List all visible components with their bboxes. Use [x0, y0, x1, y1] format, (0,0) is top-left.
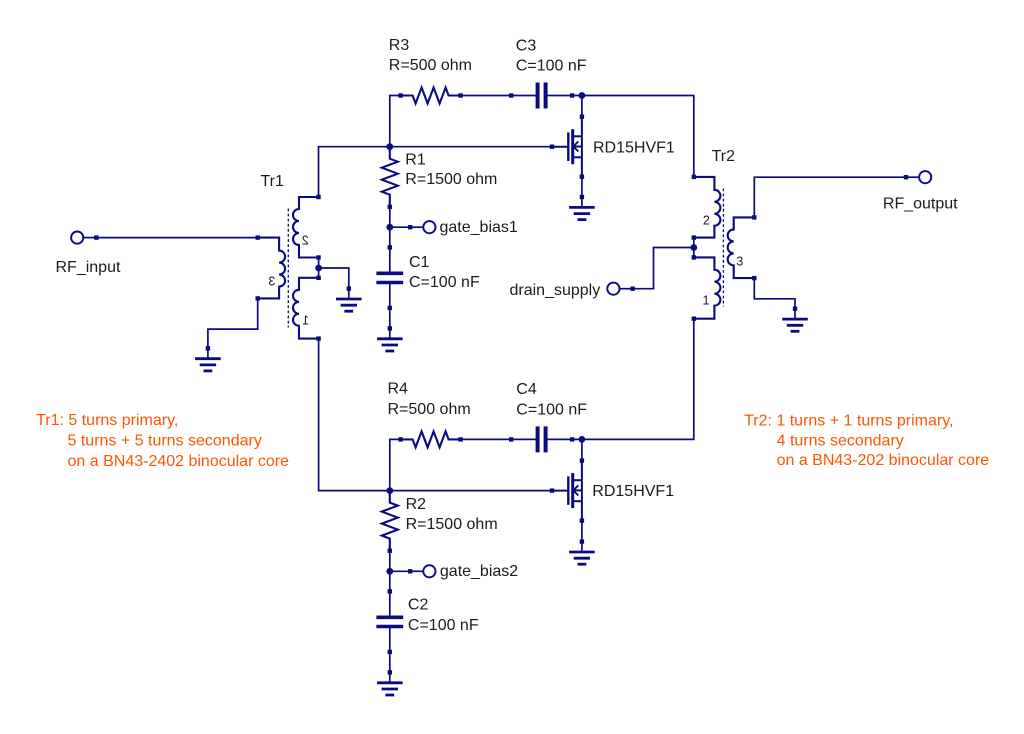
transformer Tr1 core line — [287, 209, 289, 328]
wire RF_input to Tr1 — [96, 237, 258, 239]
wire junction to C2 — [389, 571, 391, 591]
port drain_supply — [607, 283, 635, 295]
resistor R1 — [382, 147, 398, 207]
node R1 top junction — [386, 143, 393, 150]
transistor RD15HVF1 upper — [550, 115, 584, 179]
svg-text:gate_bias1: gate_bias1 — [440, 219, 518, 236]
capacitor C3 — [509, 83, 574, 109]
annotation Tr1 winding note — [36, 412, 289, 470]
wire R3 to C3 — [460, 95, 511, 97]
wire R4 to C4 — [460, 438, 511, 440]
resistor R2 — [382, 491, 398, 551]
ground Tr1 centre tap — [336, 286, 362, 311]
ground RF output side — [782, 307, 808, 332]
svg-text:R=500 ohm: R=500 ohm — [388, 401, 471, 418]
svg-text:R=1500 ohm: R=1500 ohm — [405, 171, 497, 188]
wire C4 to drain junction — [572, 438, 582, 440]
wire Tr1 winding1 bottom to lower gate row — [319, 339, 390, 491]
wire Tr1 winding2 top to gate row — [319, 147, 390, 197]
wire Tr2 winding1 bottom to lower drain — [582, 319, 694, 440]
svg-text:R=1500 ohm: R=1500 ohm — [406, 516, 498, 533]
wire gate row to transistor gate — [390, 146, 552, 148]
resistor R3 — [398, 88, 462, 104]
svg-text:C=100 nF: C=100 nF — [516, 57, 587, 74]
wire source lower to ground — [581, 521, 583, 542]
svg-text:3: 3 — [268, 274, 275, 288]
svg-text:5 turns + 5 turns secondary: 5 turns + 5 turns secondary — [68, 432, 262, 449]
wire junction to gate_bias2 port — [390, 570, 410, 572]
wire lower gate row to transistor gate — [390, 490, 552, 492]
svg-text:drain_supply: drain_supply — [510, 282, 601, 299]
transformer Tr1 winding 3 (primary) — [256, 235, 286, 300]
svg-text:C2: C2 — [408, 597, 429, 614]
svg-text:C=100 nF: C=100 nF — [408, 617, 479, 634]
port RF_output — [904, 171, 932, 183]
svg-text:3: 3 — [736, 254, 743, 268]
ground below C1 — [377, 326, 403, 351]
transformer Tr1 winding 2 (secondary upper) — [293, 195, 321, 260]
wire Tr1 secondary centre tap — [318, 258, 320, 278]
svg-text:R2: R2 — [406, 496, 427, 513]
node gate_bias1 junction — [386, 224, 393, 231]
capacitor C4 — [509, 426, 574, 452]
wire Tr2 primary centre tap — [693, 238, 695, 258]
wire drain junction to Tr2 — [582, 96, 694, 177]
svg-text:C=100 nF: C=100 nF — [516, 401, 587, 418]
node R2 top junction — [386, 487, 393, 494]
transformer Tr2 core line — [722, 189, 724, 307]
ground lower transistor source — [569, 539, 595, 564]
svg-text:on a BN43-2402 binocular core: on a BN43-2402 binocular core — [68, 453, 290, 470]
svg-text:Tr1: 5 turns primary,: Tr1: 5 turns primary, — [36, 412, 178, 429]
ground upper transistor source — [569, 195, 595, 220]
wire C3 to drain junction — [572, 95, 582, 97]
wire R1 bottom to gate_bias1 junction — [389, 207, 391, 227]
node gate_bias2 junction — [386, 568, 393, 575]
svg-text:gate_bias2: gate_bias2 — [440, 563, 518, 580]
wire C1 bottom to ground — [389, 308, 391, 329]
wire source upper to ground — [581, 177, 583, 197]
transistor RD15HVF1 lower — [550, 458, 584, 522]
svg-text:4 turns secondary: 4 turns secondary — [777, 432, 904, 449]
svg-text:C4: C4 — [516, 381, 537, 398]
wire junction to C1 — [389, 227, 391, 247]
svg-text:Tr2: 1 turns + 1 turns primary: Tr2: 1 turns + 1 turns primary, — [744, 413, 953, 430]
wire R2 bottom to gate_bias2 junction — [389, 551, 391, 572]
wire R2 junction up to R4 row — [390, 439, 401, 490]
node drain junction upper — [579, 92, 586, 99]
svg-text:1: 1 — [302, 314, 309, 328]
wire R1 junction up to R3 row — [390, 96, 401, 147]
ground below C2 — [377, 670, 403, 695]
svg-text:R=500 ohm: R=500 ohm — [389, 57, 472, 74]
svg-text:Tr1: Tr1 — [261, 173, 285, 190]
svg-text:on a BN43-202 binocular core: on a BN43-202 binocular core — [777, 452, 990, 469]
wire Tr2 secondary top to output — [754, 177, 906, 217]
svg-text:C1: C1 — [409, 254, 430, 271]
svg-text:C3: C3 — [516, 37, 537, 54]
wire C2 bottom to ground — [389, 652, 391, 673]
annotation Tr2 winding note — [744, 413, 989, 470]
port gate_bias1 — [408, 221, 436, 233]
capacitor C2 — [376, 589, 403, 654]
svg-text:RF_input: RF_input — [56, 259, 121, 276]
wire Tr2 secondary bottom to ground — [754, 278, 795, 309]
ground RF input side — [195, 346, 221, 371]
resistor R4 — [398, 431, 462, 447]
port gate_bias2 — [408, 565, 436, 577]
wire junction to gate_bias1 port — [390, 226, 410, 228]
port RF_input — [71, 232, 99, 244]
svg-text:R4: R4 — [388, 381, 409, 398]
transformer Tr1 winding 1 (secondary lower) — [293, 276, 321, 341]
node centre tap Tr1 — [315, 265, 322, 272]
node centre tap Tr2 — [690, 244, 697, 251]
wire centre tap to ground — [319, 268, 349, 289]
svg-text:RD15HVF1: RD15HVF1 — [593, 140, 675, 157]
svg-text:RF_output: RF_output — [883, 196, 958, 213]
svg-text:Tr2: Tr2 — [712, 148, 736, 165]
transformer Tr2 winding 1 (primary lower) — [692, 255, 721, 321]
wire Tr1 primary bottom to ground — [208, 298, 258, 348]
node drain junction lower — [579, 436, 586, 443]
wire drain_supply to Tr2 centre tap — [633, 248, 694, 289]
svg-text:RD15HVF1: RD15HVF1 — [592, 483, 674, 500]
svg-text:C=100 nF: C=100 nF — [409, 274, 480, 291]
wire drain upper — [581, 96, 583, 117]
capacitor C1 — [376, 245, 403, 310]
svg-text:2: 2 — [302, 234, 309, 248]
transformer Tr2 winding 2 (primary upper) — [692, 175, 721, 240]
wire drain lower — [581, 439, 583, 460]
svg-text:R3: R3 — [389, 37, 410, 54]
svg-text:R1: R1 — [405, 151, 426, 168]
svg-text:1: 1 — [703, 294, 710, 308]
svg-text:2: 2 — [703, 214, 710, 228]
transformer Tr2 winding 3 (secondary) — [728, 215, 757, 280]
